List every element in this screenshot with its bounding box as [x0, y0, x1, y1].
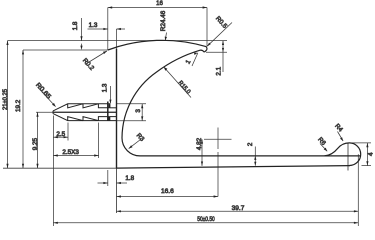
dimension 2 (leg thickness) [254, 147, 256, 166]
wire: stem left wall [107, 102, 109, 121]
dimension 9.25 [36, 112, 38, 168]
dimension 16 top [108, 6, 207, 50]
dimension 39.7 [117, 154, 359, 226]
svg-text:16: 16 [156, 0, 163, 7]
serrated fins [53, 104, 117, 121]
dimension 2.1 [222, 41, 224, 72]
label R0.65 with leader [38, 87, 56, 107]
wire: top fin teeth [68, 104, 110, 108]
dimension 1.3 top [88, 28, 126, 49]
label R0.2 with leader [85, 51, 107, 65]
wire: bottom valley line into stem [110, 116, 117, 118]
svg-text:39.7: 39.7 [232, 205, 245, 212]
svg-text:3: 3 [135, 109, 142, 113]
wire: flange underside lip, R15 sweep and R3 fillet to leg [122, 50, 204, 156]
svg-text:4: 4 [368, 152, 375, 156]
dimension 2.5 [53, 116, 68, 141]
dimension 1.3 mid (fin) [109, 86, 111, 104]
svg-text:1.8: 1.8 [72, 21, 79, 30]
dimension 1.8 top [80, 18, 82, 50]
svg-text:16.6: 16.6 [161, 188, 174, 195]
dimension 3 (fins) [117, 104, 146, 121]
wire: stem inner wall [116, 49, 118, 169]
profile outline [108, 40, 361, 213]
svg-text:9.25: 9.25 [32, 138, 39, 151]
svg-text:1.8: 1.8 [125, 175, 134, 182]
wire: bottom extension line [3, 167, 117, 169]
dimension 16.6 [117, 195, 219, 197]
label R0.5 with leader [207, 23, 232, 47]
dimension 19.2 [22, 50, 24, 168]
wire: leg top [140, 155, 361, 157]
label R4 with leader [338, 132, 344, 142]
label R24.46 with leader [165, 33, 167, 41]
svg-text:4.82: 4.82 [196, 137, 203, 150]
svg-text:50±0.50: 50±0.50 [197, 216, 215, 223]
label R15.0 with leader [164, 67, 191, 98]
node: R15 centre cross [204, 128, 232, 197]
node: bold dim bars at fin ends [109, 104, 111, 107]
wire: R6 rise and R4 bulb [325, 143, 361, 166]
svg-text:2.5X3: 2.5X3 [62, 149, 79, 156]
label R6 with leader [320, 144, 327, 152]
wire: top fin taper and outer line [53, 104, 110, 111]
wire: underside-left extension line [23, 49, 108, 51]
dimension 1.8 bottom [98, 170, 128, 186]
wire: flange top arc R24.46 with R0.5 tip [108, 40, 207, 52]
wire: top valley line into stem [110, 107, 117, 109]
dimension 2.5X3 [53, 123, 98, 159]
label 1 (tip thickness) with leader [192, 53, 198, 66]
wire: fin tip [52, 111, 54, 114]
dimension 4 (bulb) [352, 143, 371, 166]
dimension 50±0.50 [53, 158, 358, 226]
svg-text:21±0.25: 21±0.25 [2, 89, 9, 110]
svg-text:2.5: 2.5 [56, 131, 65, 138]
wire: bottom fin taper and outer line [53, 114, 117, 121]
svg-text:2: 2 [247, 142, 254, 146]
svg-text:R24.46: R24.46 [160, 10, 167, 31]
wire: fin-centre extension for 9.25 [36, 111, 53, 113]
dimension 21±0.25 [6, 41, 8, 169]
svg-text:1.3: 1.3 [101, 83, 108, 92]
wire: bulb flat chord [347, 143, 349, 171]
wire: fin centre line [53, 111, 117, 113]
svg-text:2.1: 2.1 [215, 66, 222, 75]
svg-text:19.2: 19.2 [15, 99, 22, 112]
dimension 4.82 [201, 139, 203, 166]
svg-text:1.3: 1.3 [89, 22, 98, 29]
wire: bottom fin teeth [68, 117, 110, 121]
label R3 with leader [129, 140, 141, 149]
wire: tip-bottom extension for 2.1 [206, 51, 227, 53]
wire: leg bottom [117, 166, 351, 169]
wire: top extension line at apex level [8, 40, 228, 42]
